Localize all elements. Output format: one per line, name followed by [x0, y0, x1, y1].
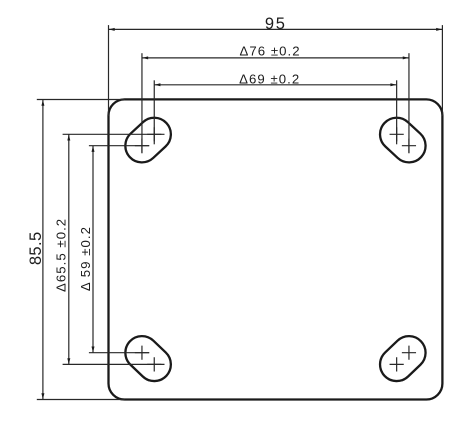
ext line 65.5 top [63, 133, 165, 135]
svg-text:Δ 59 ±0.2: Δ 59 ±0.2 [78, 226, 93, 291]
center cross TR inner [390, 127, 404, 141]
dim line 76 [142, 57, 409, 59]
svg-text:Δ69 ±0.2: Δ69 ±0.2 [239, 71, 300, 86]
dim line 69 [154, 84, 396, 86]
svg-text:95: 95 [265, 15, 287, 33]
center cross BL inner [147, 357, 161, 371]
arrow 76 right [403, 56, 409, 59]
arrow 59 top [92, 146, 95, 152]
dim line 85.5 [42, 100, 44, 400]
dim line 59 [92, 146, 94, 353]
svg-text:Δ76 ±0.2: Δ76 ±0.2 [240, 44, 301, 59]
slot hole bottom-right [373, 329, 432, 388]
ext line 85.5 bottom [37, 399, 125, 401]
ext line 59 top [89, 145, 149, 147]
arrow 95 right [436, 28, 442, 31]
center cross TL outer [135, 139, 149, 153]
ext line 76 left [141, 53, 143, 153]
svg-text:85.5: 85.5 [27, 231, 45, 265]
arrow 65.5 top [67, 135, 70, 141]
ext line 69 left [153, 80, 155, 144]
ext line 65.5 bottom [63, 363, 165, 365]
arrow 69 left [154, 83, 160, 86]
slot hole top-right [373, 111, 432, 169]
dim line 95 [109, 28, 443, 30]
arrow 95 left [109, 28, 115, 31]
center cross BR outer [402, 346, 416, 360]
plate outline [109, 99, 443, 399]
ext line 95 left [108, 25, 110, 116]
arrow 69 right [390, 83, 396, 86]
ext line 85.5 top [37, 99, 125, 101]
svg-text:Δ65.5 ±0.2: Δ65.5 ±0.2 [54, 218, 69, 292]
arrow 85.5 bottom [41, 393, 44, 399]
center cross BL outer [135, 346, 149, 360]
ext line 95 right [441, 25, 443, 116]
arrow 76 left [142, 56, 148, 59]
slot hole bottom-left [118, 329, 177, 388]
center cross BR inner [390, 357, 404, 371]
arrow 85.5 top [41, 100, 44, 106]
ext line 76 right [408, 53, 410, 153]
ext line 59 bottom [89, 352, 149, 354]
slot hole top-left [118, 111, 177, 169]
ext line 69 right [396, 80, 398, 144]
center cross TL inner [147, 127, 161, 141]
arrow 59 bottom [92, 347, 95, 353]
arrow 65.5 bottom [67, 358, 70, 364]
center cross TR outer [402, 139, 416, 153]
dim line 65.5 [68, 134, 70, 364]
